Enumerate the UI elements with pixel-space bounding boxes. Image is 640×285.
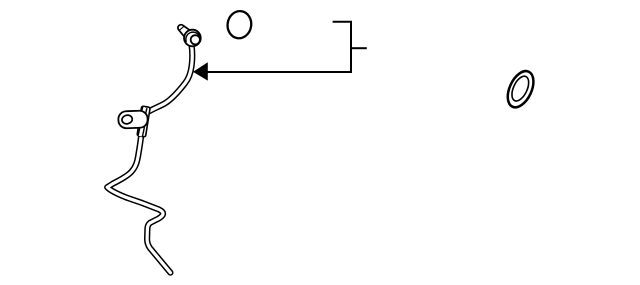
clamp inner tube lines [140, 107, 145, 136]
bracket tab hole [121, 114, 133, 125]
banjo fitting inner circle [191, 35, 200, 44]
banjo fitting ring arc [186, 32, 200, 42]
banjo bolt stub [178, 25, 190, 37]
pipe tube inner white fill [107, 44, 192, 273]
bracket tab [118, 110, 148, 128]
banjo bolt stub cap line [179, 27, 184, 31]
o-ring outer [503, 67, 539, 111]
clamp sleeve around tube [137, 106, 150, 137]
leader arrow line [206, 71, 352, 73]
gasket ellipse top [226, 9, 254, 40]
callout bracket top line [333, 22, 351, 72]
leader arrowhead [194, 63, 207, 80]
o-ring inner [509, 74, 533, 104]
callout bracket tick [351, 47, 367, 49]
pipe tube outer outline [107, 44, 192, 273]
banjo fitting outer circle [184, 30, 201, 47]
